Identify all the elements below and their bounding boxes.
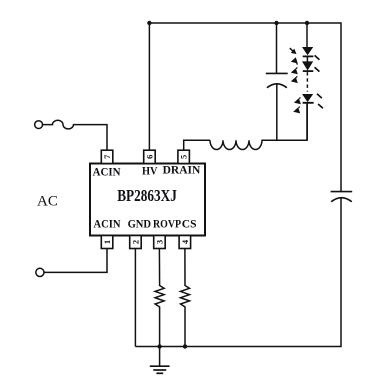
svg-text:2: 2	[130, 240, 140, 244]
svg-text:3: 3	[154, 240, 164, 244]
svg-text:GND: GND	[128, 218, 152, 230]
svg-text:HV: HV	[142, 165, 158, 178]
svg-text:1: 1	[102, 240, 112, 244]
svg-text:ACIN: ACIN	[93, 166, 121, 178]
svg-text:CS: CS	[182, 218, 197, 230]
svg-text:ACIN: ACIN	[94, 218, 121, 230]
svg-text:4: 4	[180, 239, 190, 244]
svg-text:ROVP: ROVP	[153, 218, 181, 231]
svg-text:DRAIN: DRAIN	[163, 165, 201, 177]
svg-text:6: 6	[144, 155, 154, 159]
svg-text:5: 5	[179, 155, 189, 159]
svg-text:BP2863XJ: BP2863XJ	[117, 186, 177, 205]
svg-text:AC: AC	[37, 193, 58, 209]
